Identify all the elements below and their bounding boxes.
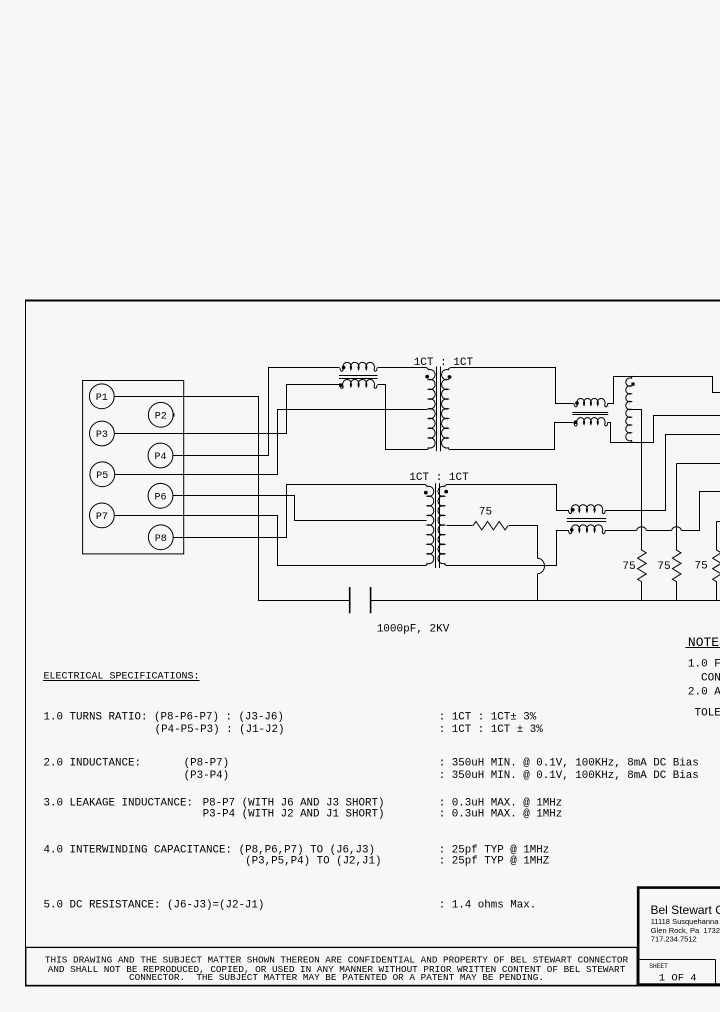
wire P8 to T2 primary top (173, 485, 426, 538)
wire T1 secondary bottom to choke L2 lower (451, 423, 574, 450)
polarity dot T1 secondary (448, 375, 452, 379)
choke L2 core (572, 413, 608, 415)
wire L2 lower to W1 bottom / node out (608, 416, 720, 443)
svg-text:TOLERANCE: TOLERANCE (695, 708, 720, 720)
disclaimer box (26, 947, 637, 985)
wire P4 to choke L1 upper winding (173, 368, 340, 456)
choke L3 upper winding (569, 505, 606, 514)
svg-text:Bel Stewart Conn: Bel Stewart Conn (651, 903, 720, 917)
pin P2 (148, 402, 173, 427)
choke L1 upper winding (340, 362, 377, 371)
svg-text:5.0 DC RESISTANCE: (J6-J3)=(J2: 5.0 DC RESISTANCE: (J6-J3)=(J2-J1) (44, 900, 265, 912)
polarity dot L2 upper (575, 401, 579, 405)
svg-text:CONNECTOR. THE SUBJECT MATTER: CONNECTOR. THE SUBJECT MATTER MAY BE PAT… (129, 972, 544, 983)
wire T2 secondary top to choke L3 upper (447, 485, 569, 511)
svg-text:2.0 ALL: 2.0 ALL (688, 687, 720, 699)
transformer T1 core (437, 367, 441, 452)
pin P4 (148, 443, 173, 468)
choke L2 upper winding (574, 399, 608, 407)
polarity dot T2 secondary (444, 490, 448, 494)
svg-text:717.234.7512: 717.234.7512 (651, 935, 697, 944)
svg-text:1CT : 1CT: 1CT : 1CT (409, 472, 469, 484)
svg-text:: 350uH MIN. @ 0.1V, 100KHz, 8: : 350uH MIN. @ 0.1V, 100KHz, 8mA DC Bias (439, 770, 699, 782)
wire T2 secondary bottom to choke L3 lower (447, 531, 569, 566)
svg-text:1000pF, 2KV: 1000pF, 2KV (377, 623, 450, 635)
wire T1 secondary top to choke L2 upper (451, 368, 574, 404)
svg-text:3.0 LEAKAGE INDUCTANCE:: 3.0 LEAKAGE INDUCTANCE: (44, 798, 193, 810)
resistor R1 75 ohm (638, 550, 647, 582)
svg-text:P4: P4 (154, 452, 166, 463)
wire R3 top node (717, 521, 720, 523)
svg-text:2.0 INDUCTANCE:: 2.0 INDUCTANCE: (44, 758, 141, 770)
wire W1 center tap to resistor R1 (632, 410, 642, 551)
wire P3 to choke L1 lower winding (115, 385, 340, 434)
svg-text:P3: P3 (96, 430, 108, 441)
capacitor C1 plates (350, 587, 371, 613)
wire R2 to rail (676, 582, 678, 601)
wire node to R2 top (677, 463, 720, 465)
transformer T2 core (436, 483, 440, 568)
svg-text:(P4-P5-P3) : (J1-J2): (P4-P5-P3) : (J1-J2) (155, 724, 285, 736)
svg-text:4.0 INTERWINDING CAPACITANCE:: 4.0 INTERWINDING CAPACITANCE: (44, 845, 232, 857)
svg-text:75: 75 (657, 561, 670, 573)
pin P5 (90, 462, 115, 487)
svg-text:: 1CT : 1CT± 3%: : 1CT : 1CT± 3% (439, 712, 537, 724)
transformer T2 primary winding (425, 485, 434, 566)
stub at pin P2 (173, 413, 175, 416)
choke L1 lower winding (340, 379, 377, 388)
svg-text:(P3-P4): (P3-P4) (184, 770, 230, 782)
svg-text:P8-P7 (WITH J6 AND J3 SHORT): P8-P7 (WITH J6 AND J3 SHORT) (203, 798, 385, 810)
choke L1 core (339, 376, 378, 379)
title block border (638, 888, 720, 985)
choke L3 core (567, 519, 606, 522)
polarity dot L3 lower (570, 528, 574, 532)
polarity dot T2 primary (424, 491, 428, 495)
svg-text:P5: P5 (96, 471, 108, 482)
wire R2 top lead (676, 464, 678, 551)
svg-text:: 350uH MIN. @ 0.1V, 100KHz, 8: : 350uH MIN. @ 0.1V, 100KHz, 8mA DC Bias (439, 758, 699, 770)
svg-text:P8: P8 (155, 534, 167, 545)
wire P1 to capacitor C1 (115, 397, 350, 601)
winding W1 vertical (626, 376, 634, 442)
svg-text:75: 75 (695, 561, 708, 573)
wire L2 upper to winding W1 top / node J out (608, 377, 720, 404)
choke L2 lower winding (574, 418, 608, 426)
pin P1 (89, 384, 114, 409)
svg-text:CONNECTOR: CONNECTOR (701, 673, 720, 685)
svg-text:: 25pf TYP @ 1MHZ: : 25pf TYP @ 1MHZ (439, 856, 550, 868)
wire P5 to T1 primary center tap (115, 410, 428, 475)
svg-text:(P8-P7): (P8-P7) (184, 758, 230, 770)
wire P6 to T2 primary center tap (173, 496, 427, 521)
svg-text:SHEET: SHEET (649, 963, 668, 970)
wire R3 to rail (716, 582, 718, 601)
pin P7 (90, 503, 115, 528)
svg-text:: 1CT : 1CT ± 3%: : 1CT : 1CT ± 3% (439, 724, 543, 736)
polarity mark L1 lower (339, 383, 342, 386)
title block sheet cell (640, 960, 716, 985)
svg-text:1.0 TURNS RATIO: (P8-P6-P7) :: 1.0 TURNS RATIO: (P8-P6-P7) : (J3-J6) (44, 712, 284, 724)
wire R0 to ground rail with crossover hop (509, 526, 538, 559)
svg-text:: 1.4 ohms Max.: : 1.4 ohms Max. (439, 900, 536, 912)
wire choke L3 upper out to node (606, 435, 720, 511)
choke L3 lower winding (569, 525, 606, 534)
transformer T1 primary winding (426, 368, 435, 450)
svg-text:P3-P4 (WITH J2 AND J1 SHORT): P3-P4 (WITH J2 AND J1 SHORT) (203, 809, 385, 821)
wire L1 lower to T1 primary bottom (378, 385, 428, 450)
wire L1 upper to T1 primary top (378, 367, 427, 369)
svg-text:1 OF 4: 1 OF 4 (659, 972, 697, 984)
pin P6 (148, 483, 173, 508)
transformer T2 secondary winding (438, 485, 447, 566)
polarity mark W1 (631, 383, 634, 386)
transformer T1 secondary winding (442, 368, 451, 450)
wire choke L3 lower out with crossover hops (606, 530, 637, 532)
svg-text:P7: P7 (96, 512, 108, 523)
svg-text:75: 75 (479, 507, 492, 519)
pin P3 (90, 421, 115, 446)
wire P7 to T2 primary bottom (115, 516, 427, 566)
svg-text:: 0.3uH MAX. @ 1MHz: : 0.3uH MAX. @ 1MHz (439, 809, 562, 821)
svg-text:11118 Susquehanna Trail: 11118 Susquehanna Trail (651, 917, 720, 926)
polarity dot L3 upper (571, 508, 575, 512)
wire T2 secondary tap to resistor R0 (447, 525, 473, 527)
svg-text:1.0 FOR: 1.0 FOR (688, 659, 720, 671)
svg-text:75: 75 (622, 561, 635, 573)
resistor R0 75 ohm horizontal (473, 522, 508, 530)
svg-text:P2: P2 (155, 411, 167, 422)
svg-text:P1: P1 (96, 393, 108, 404)
drawing frame border (25, 300, 27, 987)
wire R1 to rail (641, 582, 643, 601)
wire R3 top lead (716, 522, 718, 551)
connector P1-P8 box (83, 381, 184, 554)
svg-text:P6: P6 (154, 492, 166, 503)
polarity dot T1 primary (425, 375, 429, 379)
pin P8 (148, 525, 173, 550)
wire ground rail (371, 600, 720, 602)
svg-text:(P3,P5,P4) TO (J2,J1): (P3,P5,P4) TO (J2,J1) (245, 856, 381, 868)
polarity dot L2 lower (574, 420, 578, 424)
svg-text:: 0.3uH MAX. @ 1MHz: : 0.3uH MAX. @ 1MHz (439, 798, 562, 810)
polarity dot L1 upper (342, 366, 346, 370)
